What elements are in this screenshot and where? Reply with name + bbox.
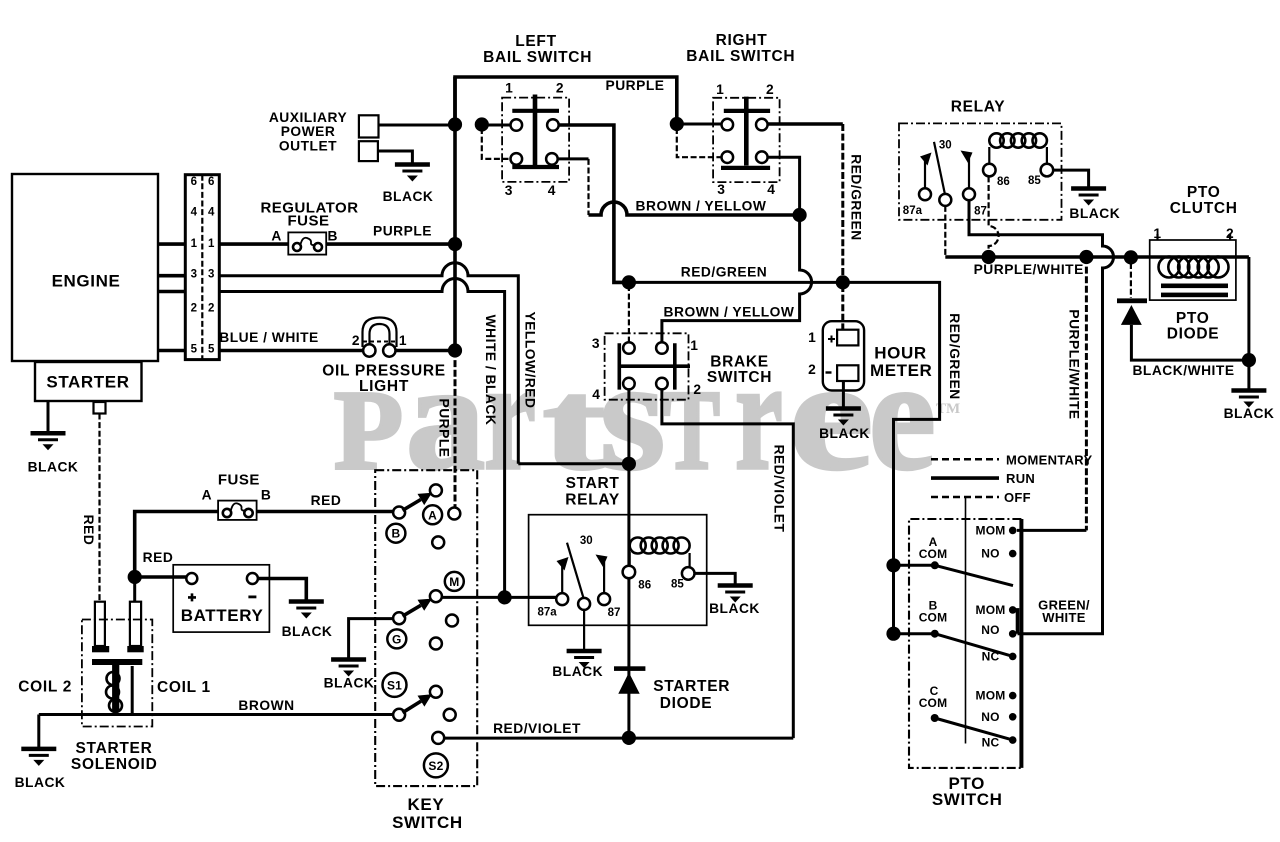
wire coil2 to ground: [37, 715, 40, 748]
key arrow S1: [403, 694, 433, 713]
svg-text:M: M: [449, 575, 459, 589]
svg-text:BLACK: BLACK: [819, 426, 870, 441]
wire feed to terminal 1: [482, 124, 511, 127]
svg-text:RED/VIOLET: RED/VIOLET: [493, 721, 581, 736]
svg-text:PURPLE: PURPLE: [437, 399, 452, 458]
wire key G to ground: [349, 619, 394, 658]
svg-text:STARTER: STARTER: [76, 740, 153, 757]
hour meter: [841, 285, 844, 330]
wire connector pin1 to regulator fuse: [219, 242, 288, 246]
svg-text:6: 6: [191, 176, 197, 188]
connector 6-pin: [185, 175, 219, 360]
battery: [173, 565, 269, 632]
junction yellow/red node: [622, 457, 636, 471]
wire RED starter to solenoid post: [98, 414, 100, 602]
watermark PartsTree: [334, 368, 403, 493]
svg-text:RIGHT: RIGHT: [716, 32, 768, 49]
wire hour meter to ground: [842, 381, 845, 407]
svg-text:STARTER: STARTER: [653, 678, 730, 695]
junction right bail feed node: [670, 117, 684, 131]
pto blades: [935, 565, 1013, 740]
wire start relay 85 to ground: [695, 573, 736, 583]
svg-text:OFF: OFF: [1004, 490, 1031, 505]
svg-text:1: 1: [716, 82, 724, 97]
key switch: [375, 470, 477, 786]
wire relay 86 down with hop: [989, 176, 999, 251]
starter solenoid: [82, 620, 152, 727]
junction left bail feed node: [475, 117, 489, 131]
svg-text:NC: NC: [982, 735, 1000, 749]
wire start relay 87a to M node: [529, 596, 557, 599]
ground hour meter ground: [826, 409, 861, 426]
svg-text:5: 5: [191, 344, 198, 356]
svg-text:1: 1: [399, 333, 407, 348]
wire BLUE/WHITE connector pin5 to oil light: [219, 349, 363, 353]
wire outlet to purple node: [379, 124, 456, 127]
svg-text:4: 4: [191, 206, 198, 218]
svg-text:FUSE: FUSE: [287, 213, 329, 230]
svg-text:OIL PRESSURE: OIL PRESSURE: [322, 363, 446, 380]
svg-text:NO: NO: [981, 547, 999, 561]
svg-text:3: 3: [191, 269, 197, 281]
svg-text:RELAY: RELAY: [565, 492, 620, 509]
junction M node: [498, 590, 512, 604]
svg-text:A: A: [202, 488, 212, 503]
svg-text:DIODE: DIODE: [660, 695, 713, 712]
junction A COM node: [886, 558, 900, 572]
svg-text:SOLENOID: SOLENOID: [71, 756, 158, 773]
svg-text:87: 87: [974, 206, 987, 218]
wire PURPLE fuse to main vertical: [326, 242, 455, 246]
junction battery + node: [128, 570, 142, 584]
wire purple top loop: [455, 77, 677, 124]
svg-text:4: 4: [592, 387, 600, 402]
svg-text:PURPLE/WHITE: PURPLE/WHITE: [1067, 309, 1082, 419]
svg-text:POWER: POWER: [281, 124, 336, 139]
svg-text:RED/GREEN: RED/GREEN: [849, 154, 864, 241]
wire brake t2 red/violet: [662, 390, 793, 738]
svg-text:2: 2: [556, 81, 564, 96]
svg-text:RED/GREEN: RED/GREEN: [681, 265, 768, 280]
svg-text:B: B: [327, 229, 337, 244]
svg-text:1: 1: [808, 330, 816, 345]
svg-text:G: G: [392, 632, 402, 646]
wire RED/GREEN horizontal: [614, 282, 940, 633]
svg-text:5: 5: [208, 344, 215, 356]
wire right bail t2 to red/green vertical: [768, 122, 843, 126]
svg-text:BROWN: BROWN: [238, 698, 294, 713]
fuse: [218, 501, 257, 520]
ground clutch ground: [1231, 391, 1266, 408]
svg-text:4: 4: [548, 183, 556, 198]
key terminals: [430, 484, 442, 496]
svg-text:e: e: [789, 327, 873, 503]
wire purple/white vertical to A MOM: [1085, 257, 1088, 530]
ground starter ground: [31, 433, 66, 450]
svg-text:BLACK: BLACK: [15, 775, 66, 790]
svg-text:30: 30: [580, 535, 593, 547]
junction purple/white node: [1079, 250, 1093, 264]
junction aux node: [448, 117, 462, 131]
svg-text:2: 2: [208, 303, 214, 315]
wire yellow/red row with hop: [219, 263, 518, 464]
svg-text:1: 1: [505, 81, 513, 96]
svg-text:NO: NO: [981, 710, 999, 724]
key arrow A: [403, 493, 433, 511]
wire left bail t2 down: [559, 125, 623, 282]
svg-text:WHITE / BLACK: WHITE / BLACK: [483, 315, 498, 426]
svg-text:1: 1: [191, 238, 198, 250]
svg-text:ENGINE: ENGINE: [52, 272, 121, 291]
svg-text:COM: COM: [919, 696, 948, 710]
svg-text:4: 4: [767, 182, 775, 197]
svg-text:RED: RED: [81, 515, 96, 546]
svg-text:2: 2: [766, 82, 774, 97]
svg-text:3: 3: [592, 336, 600, 351]
svg-text:BAIL SWITCH: BAIL SWITCH: [686, 48, 795, 65]
junction B COM node: [886, 627, 900, 641]
coil relay coil: [989, 133, 1047, 147]
svg-text:RED/GREEN: RED/GREEN: [947, 313, 962, 400]
svg-text:BLACK: BLACK: [324, 676, 375, 691]
svg-text:B: B: [391, 527, 400, 541]
svg-text:COM: COM: [919, 610, 948, 624]
wire yellow/red to node: [518, 462, 629, 465]
svg-text:2: 2: [352, 333, 360, 348]
wire outlet to ground: [378, 151, 413, 163]
svg-text:DIODE: DIODE: [1167, 326, 1220, 343]
junction oil node: [448, 343, 462, 357]
wire start relay mid to ground: [583, 610, 585, 650]
wire RED fuse to key B: [257, 510, 394, 514]
ground battery ground: [289, 602, 324, 619]
wire feed to right t1: [677, 123, 722, 126]
svg-text:SWITCH: SWITCH: [392, 813, 463, 832]
key terminal letters: [423, 505, 442, 524]
svg-text:AUXILIARY: AUXILIARY: [269, 110, 347, 125]
svg-text:RED/VIOLET: RED/VIOLET: [772, 445, 787, 533]
svg-text:SWITCH: SWITCH: [932, 790, 1003, 809]
brake switch: [605, 333, 689, 399]
svg-text:B: B: [261, 488, 271, 503]
relay blade 30: [934, 142, 945, 196]
ground key ground: [331, 660, 366, 677]
svg-text:87a: 87a: [903, 205, 923, 217]
svg-text:CLUTCH: CLUTCH: [1170, 200, 1238, 217]
start relay blade: [567, 543, 584, 600]
junction 86 node: [982, 250, 996, 264]
svg-text:3: 3: [505, 183, 513, 198]
junction hour meter node: [836, 275, 850, 289]
wire battery - to ground: [258, 579, 306, 601]
svg-text:BLACK: BLACK: [1224, 406, 1275, 421]
svg-text:RED: RED: [311, 493, 342, 508]
svg-text:2: 2: [693, 382, 701, 397]
svg-text:PURPLE: PURPLE: [606, 78, 665, 93]
svg-text:85: 85: [671, 579, 684, 591]
svg-text:STARTER: STARTER: [46, 373, 129, 392]
svg-text:1: 1: [208, 238, 215, 250]
svg-text:30: 30: [939, 139, 952, 151]
svg-text:YELLOW/RED: YELLOW/RED: [522, 312, 537, 409]
svg-text:PTO: PTO: [1176, 310, 1210, 327]
pto com wires: [894, 565, 935, 633]
junction red/violet node: [622, 731, 636, 745]
ground start relay 85 ground: [718, 586, 753, 603]
regulator fuse: [288, 232, 326, 254]
svg-text:PURPLE/WHITE: PURPLE/WHITE: [974, 262, 1084, 277]
wire RED fuse feed: [135, 512, 218, 578]
svg-text:MOM: MOM: [976, 603, 1006, 617]
wire clutch to ground: [1247, 360, 1250, 388]
svg-text:87a: 87a: [538, 606, 558, 618]
relay contact arrows: [924, 160, 926, 188]
svg-text:BLACK: BLACK: [28, 460, 79, 475]
wire RED/VIOLET key S2: [444, 737, 793, 740]
svg-text:RED: RED: [143, 550, 174, 565]
junction pto diode node: [1124, 250, 1138, 264]
svg-text:BRAKE: BRAKE: [710, 353, 769, 370]
svg-text:METER: METER: [870, 361, 933, 380]
wire relay 85 to ground: [1053, 170, 1088, 186]
wire brown/yellow down with hop: [662, 215, 812, 342]
wire brake t4 down to yellow/red node: [627, 390, 630, 738]
svg-text:SWITCH: SWITCH: [707, 369, 772, 386]
svg-text:BLACK: BLACK: [282, 624, 333, 639]
wire battery node to solenoid post: [133, 577, 136, 602]
svg-text:6: 6: [208, 176, 214, 188]
svg-text:BATTERY: BATTERY: [181, 606, 264, 625]
svg-text:KEY: KEY: [408, 795, 445, 814]
svg-text:BLACK/WHITE: BLACK/WHITE: [1132, 363, 1234, 378]
wire right bail t4 down: [768, 157, 800, 209]
wire left bail t4 to brown/yellow: [558, 157, 589, 160]
starter plug: [94, 402, 106, 414]
ground start relay ground: [567, 651, 602, 668]
svg-text:87: 87: [608, 607, 621, 619]
svg-text:START: START: [566, 475, 620, 492]
engine block: [12, 174, 158, 361]
wire feed to right t3: [677, 128, 722, 157]
pto diode: [1130, 263, 1132, 298]
svg-text:4: 4: [208, 206, 215, 218]
svg-text:BROWN / YELLOW: BROWN / YELLOW: [636, 199, 767, 214]
svg-text:PURPLE: PURPLE: [373, 224, 432, 239]
wire oil light to purple vertical: [396, 349, 456, 353]
svg-text:LIGHT: LIGHT: [359, 378, 409, 395]
ground outlet ground: [395, 165, 430, 182]
starter diode: [614, 666, 645, 671]
junction black/white node: [1242, 353, 1256, 367]
wire clutch right side down: [1247, 257, 1250, 360]
svg-text:BAIL SWITCH: BAIL SWITCH: [483, 49, 592, 66]
svg-text:NO: NO: [981, 623, 999, 637]
svg-text:COIL 2: COIL 2: [18, 679, 72, 696]
wire to brake t3: [628, 285, 630, 342]
ground solenoid ground: [21, 749, 56, 766]
svg-text:85: 85: [1028, 175, 1041, 187]
junction purple node: [448, 237, 462, 251]
coil start relay coil: [630, 538, 690, 554]
coil clutch coil: [1159, 257, 1229, 278]
wire feed to terminal 3: [482, 128, 511, 159]
svg-text:BLACK: BLACK: [552, 664, 603, 679]
svg-text:A: A: [428, 508, 437, 522]
svg-text:2: 2: [191, 303, 197, 315]
svg-text:BLACK: BLACK: [1069, 206, 1120, 221]
svg-text:S1: S1: [387, 678, 402, 692]
wire BROWN solenoid to key S1: [39, 713, 393, 716]
wire purple main vertical: [453, 77, 457, 350]
oil pressure light: [363, 344, 375, 356]
svg-text:MOM: MOM: [976, 523, 1006, 537]
svg-text:WHITE: WHITE: [1042, 610, 1085, 625]
wire starter to ground: [47, 401, 50, 433]
wires engine to connector: [158, 244, 185, 350]
svg-text:LEFT: LEFT: [515, 33, 557, 50]
starter: [35, 362, 142, 401]
svg-text:1: 1: [690, 338, 698, 353]
svg-text:MOM: MOM: [976, 689, 1006, 703]
wire relay 87 to green/white: [969, 200, 1114, 634]
svg-text:BLUE / WHITE: BLUE / WHITE: [219, 330, 319, 345]
wire relay 30 to purple/white: [944, 206, 946, 257]
svg-text:BLACK: BLACK: [709, 601, 760, 616]
svg-text:86: 86: [997, 176, 1010, 188]
ground relay ground: [1071, 189, 1106, 206]
svg-text:86: 86: [638, 579, 651, 591]
svg-text:3: 3: [717, 182, 725, 197]
pto switch legend: [931, 458, 999, 461]
pto switch box: [909, 519, 1021, 768]
svg-text:PTO: PTO: [1187, 184, 1221, 201]
svg-text:RUN: RUN: [1006, 471, 1035, 486]
svg-text:A: A: [271, 229, 281, 244]
svg-text:FUSE: FUSE: [218, 472, 260, 489]
svg-text:COM: COM: [919, 547, 948, 561]
wire key M out: [442, 596, 556, 599]
svg-text:2: 2: [808, 362, 816, 377]
pto B bracket: [1013, 610, 1018, 634]
svg-text:OUTLET: OUTLET: [279, 139, 337, 154]
svg-text:BLACK: BLACK: [383, 189, 434, 204]
pto terminals: [1009, 527, 1017, 535]
junction brake feed node: [622, 275, 636, 289]
key arrow M: [403, 599, 433, 617]
svg-text:BROWN / YELLOW: BROWN / YELLOW: [664, 305, 795, 320]
wire white/black row with hop: [219, 279, 504, 598]
svg-text:MOMENTARY: MOMENTARY: [1006, 453, 1092, 468]
junction brown/yellow node: [793, 208, 807, 222]
svg-text:COIL 1: COIL 1: [157, 679, 211, 696]
svg-text:S2: S2: [428, 759, 443, 773]
svg-text:3: 3: [208, 269, 214, 281]
svg-text:RELAY: RELAY: [951, 99, 1006, 116]
